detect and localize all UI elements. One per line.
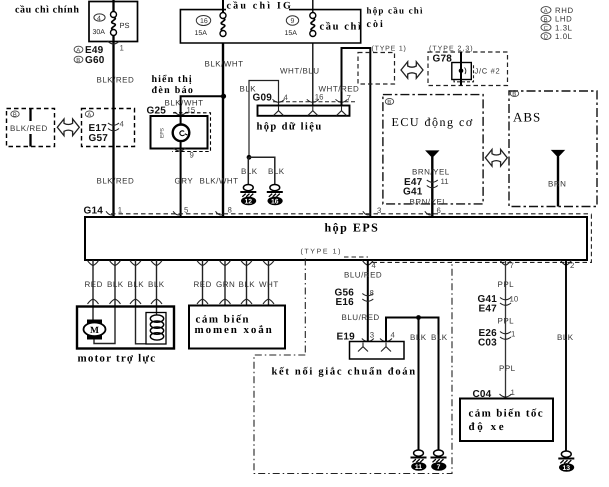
svg-text:cảm biến tốc: cảm biến tốc xyxy=(469,408,544,420)
junction connector J/C #2 xyxy=(454,65,474,82)
svg-text:BLK/RED: BLK/RED xyxy=(10,124,48,133)
yfork pin7 xyxy=(337,107,347,116)
connector variant box BLK/RED (circled B) xyxy=(7,109,55,147)
svg-text:G57: G57 xyxy=(89,133,109,144)
yfork E19 pin4 xyxy=(381,343,391,352)
svg-text:16: 16 xyxy=(315,93,324,102)
wire to ground 16 xyxy=(249,157,275,184)
EPS lamp box xyxy=(151,116,208,149)
svg-text:RED: RED xyxy=(194,280,212,289)
TYPE 1 dashed outline around EPS xyxy=(344,214,591,263)
svg-text:B: B xyxy=(13,112,17,119)
svg-text:BLK: BLK xyxy=(239,280,256,289)
motor wire BLK xyxy=(94,260,115,344)
wire BLK EPS pin2 to ground 13 xyxy=(565,260,567,451)
double arrow (variant swap) xyxy=(57,119,79,136)
pin 16 G09 xyxy=(307,99,319,102)
coil windings xyxy=(150,315,163,322)
wire WHT/RED riser G09 pin7 to EPS pin3 xyxy=(342,48,371,217)
svg-text:G25: G25 xyxy=(147,106,167,117)
main fuse box xyxy=(89,2,138,42)
wire BLU/RED EPS pin4 to E19 pin 3 xyxy=(367,260,369,342)
ground 16 xyxy=(267,185,283,206)
svg-text:2: 2 xyxy=(570,261,574,270)
ABS box xyxy=(509,91,597,207)
svg-text:4: 4 xyxy=(97,15,101,22)
svg-text:A: A xyxy=(544,8,548,15)
ECU box (ECU dong co) xyxy=(383,95,483,204)
junction dot BLK xyxy=(247,155,252,160)
ground 7 xyxy=(431,450,447,471)
svg-text:C03: C03 xyxy=(478,338,497,349)
svg-text:độ xe: độ xe xyxy=(469,421,507,433)
svg-text:B: B xyxy=(76,57,80,64)
svg-text:BLK: BLK xyxy=(128,280,145,289)
svg-text:cầu chì IG: cầu chì IG xyxy=(227,1,293,12)
legend circled B LHD xyxy=(541,15,551,22)
wire stub in variant box xyxy=(29,109,31,122)
svg-text:15A: 15A xyxy=(285,30,298,37)
svg-text:hiển thị: hiển thị xyxy=(152,74,193,85)
connector squiggle E17/G57 xyxy=(108,123,119,131)
svg-text:15A: 15A xyxy=(195,30,208,37)
svg-text:BRN/YEL: BRN/YEL xyxy=(412,168,450,177)
svg-text:BLK/RED: BLK/RED xyxy=(97,177,135,186)
yfork E19 pin3 xyxy=(358,343,368,352)
TYPE 1 variant dashed box xyxy=(358,53,395,85)
svg-text:BLU/RED: BLU/RED xyxy=(344,271,382,280)
ground 13 xyxy=(558,451,574,472)
svg-text:hộp EPS: hộp EPS xyxy=(325,220,380,234)
double arrow type1-type23 xyxy=(401,62,423,79)
svg-text:GRY: GRY xyxy=(175,177,194,186)
svg-text:kết nối giắc chuẩn đoán: kết nối giắc chuẩn đoán xyxy=(272,366,417,377)
svg-text:BLK: BLK xyxy=(557,333,574,342)
svg-text:G78: G78 xyxy=(433,54,453,65)
torque sensor box (cam bien momen xoan) xyxy=(189,306,285,349)
svg-text:8: 8 xyxy=(370,289,374,298)
svg-text:PPL: PPL xyxy=(499,364,516,373)
svg-text:LHD: LHD xyxy=(555,15,572,24)
svg-text:9: 9 xyxy=(291,18,295,25)
svg-text:WHT/RED: WHT/RED xyxy=(319,85,360,94)
EPS pin 7 xyxy=(500,260,511,265)
fork into cluster xyxy=(175,112,187,115)
junction dot gnd11 xyxy=(416,315,421,320)
pin 1 C04 xyxy=(500,394,512,397)
svg-text:1.0L: 1.0L xyxy=(555,32,573,41)
svg-text:cầu chì: cầu chì xyxy=(320,22,363,33)
svg-text:B: B xyxy=(544,16,548,23)
svg-text:5: 5 xyxy=(184,206,189,215)
svg-text:4: 4 xyxy=(372,261,377,270)
svg-text:EPS: EPS xyxy=(160,127,166,138)
svg-text:BRN/YEL: BRN/YEL xyxy=(410,198,448,207)
legend circled A RHD xyxy=(541,7,551,14)
svg-text:12: 12 xyxy=(245,199,253,206)
svg-text:7: 7 xyxy=(510,261,514,270)
svg-text:4: 4 xyxy=(391,331,396,340)
wire BRN xyxy=(557,157,559,207)
EPS box (hop EPS) xyxy=(85,217,587,260)
legend circled D 1.0L xyxy=(541,33,551,40)
svg-text:WHT/BLU: WHT/BLU xyxy=(280,67,320,76)
wire to ground 11 xyxy=(418,318,420,451)
svg-text:13: 13 xyxy=(563,465,571,472)
svg-text:RED: RED xyxy=(85,280,103,289)
coil box xyxy=(146,313,166,345)
TYPE1 diag region chain line left xyxy=(304,259,306,356)
svg-text:C: C xyxy=(544,25,549,32)
svg-text:BLK: BLK xyxy=(268,167,285,176)
pin 3 E19 xyxy=(362,339,374,342)
svg-text:PPL: PPL xyxy=(498,280,515,289)
connector E17 G57 box (circled A) xyxy=(82,109,135,147)
wire branch to indicator xyxy=(181,96,224,216)
squiggle E47/G41 xyxy=(427,180,438,188)
svg-text:1: 1 xyxy=(511,388,515,397)
pin 1 G14 xyxy=(106,211,114,215)
svg-text:3: 3 xyxy=(377,206,381,215)
wire BLK/RED above fuse xyxy=(112,0,114,12)
torque sensor wire GRN xyxy=(224,260,226,306)
pin 5 G14 xyxy=(173,211,181,215)
svg-text:A: A xyxy=(87,112,91,119)
EPS pin 2 xyxy=(561,260,572,265)
speed sensor box (cam bien toc do xe) xyxy=(460,399,553,442)
wire through J/C xyxy=(460,52,462,86)
ground 12 xyxy=(240,185,256,206)
svg-text:G41: G41 xyxy=(403,187,423,198)
svg-text:11: 11 xyxy=(415,464,422,471)
wire above fuse 9 xyxy=(312,0,314,13)
svg-text:M: M xyxy=(90,326,99,336)
svg-text:BLK/WHT: BLK/WHT xyxy=(200,177,239,186)
svg-text:BLK: BLK xyxy=(107,280,124,289)
svg-text:1: 1 xyxy=(118,206,122,215)
fuse PS 30A xyxy=(111,12,117,36)
G14 dashed connector line xyxy=(111,213,591,215)
squiggle G41/E47 xyxy=(500,298,511,306)
circled 4 xyxy=(94,14,105,21)
wire BLK from G09 pin 4 to grounds xyxy=(249,81,279,158)
svg-text:B: B xyxy=(512,91,516,98)
svg-text:16: 16 xyxy=(271,199,279,206)
connector E49 (circled A) xyxy=(74,46,83,53)
svg-text:hộp cầu chì: hộp cầu chì xyxy=(367,6,424,16)
pin 7 G09 xyxy=(336,99,348,102)
svg-text:(TYPE 2,3): (TYPE 2,3) xyxy=(429,45,474,53)
svg-text:7: 7 xyxy=(347,94,351,103)
motor box xyxy=(77,307,174,349)
svg-text:(TYPE 1): (TYPE 1) xyxy=(372,45,407,53)
svg-text:D: D xyxy=(544,34,549,41)
G09 dashed connector line xyxy=(273,101,356,103)
pin 4 G09 xyxy=(273,99,285,102)
pin 6 G14 xyxy=(425,211,433,215)
svg-text:PS: PS xyxy=(120,21,130,30)
instrument cluster dashed outline xyxy=(172,113,211,152)
torque sensor wire BLK xyxy=(246,260,248,306)
svg-text:BRN: BRN xyxy=(548,180,566,189)
wire BLK/WHT fuse16 to G14 pin 8 xyxy=(222,43,224,217)
motor wire BLK 2 xyxy=(136,260,147,344)
svg-text:đèn báo: đèn báo xyxy=(152,85,195,96)
fuse 9 15A xyxy=(310,13,316,37)
junction dot on BLK/WHT xyxy=(221,94,226,99)
motor wire RED xyxy=(92,260,94,320)
svg-text:RHD: RHD xyxy=(555,6,574,15)
svg-text:GRN: GRN xyxy=(216,280,235,289)
svg-text:30A: 30A xyxy=(93,29,106,36)
EPS pin 4 xyxy=(362,260,373,265)
svg-text:motor trợ lực: motor trợ lực xyxy=(78,353,157,365)
wire E19 pin4 to grounds 11/7 xyxy=(386,318,439,451)
svg-text:BLU/RED: BLU/RED xyxy=(342,313,380,322)
svg-text:BLK/WHT: BLK/WHT xyxy=(205,60,244,69)
wire BRN/YEL ECU to EPS pin 6 xyxy=(431,157,433,217)
svg-text:momen xoắn: momen xoắn xyxy=(195,324,274,336)
svg-text:ECU động cơ: ECU động cơ xyxy=(392,115,474,129)
svg-text:B: B xyxy=(387,99,391,106)
svg-text:ABS: ABS xyxy=(513,110,541,125)
ABS feed triangle xyxy=(551,150,565,158)
wire PPL EPS pin7 to speed sensor xyxy=(505,260,507,399)
svg-text:E47: E47 xyxy=(479,304,498,315)
svg-text:4: 4 xyxy=(120,120,125,129)
svg-text:4: 4 xyxy=(284,93,289,102)
svg-text:BLK: BLK xyxy=(410,333,427,342)
svg-text:BLK: BLK xyxy=(148,280,165,289)
svg-text:6: 6 xyxy=(437,206,441,215)
svg-text:16: 16 xyxy=(200,18,208,25)
wire to ground 12 xyxy=(247,157,249,184)
fuse box (hop cau chi) xyxy=(180,10,360,43)
yfork pin16 xyxy=(308,107,318,116)
svg-text:hộp dữ liệu: hộp dữ liệu xyxy=(257,122,323,133)
ECU feed triangle xyxy=(425,150,439,158)
motor wire BLK 3 xyxy=(156,260,158,315)
svg-text:7: 7 xyxy=(437,464,441,471)
svg-text:còi: còi xyxy=(367,19,385,30)
double arrow ECU-ABS xyxy=(485,150,507,167)
svg-text:BLK/RED: BLK/RED xyxy=(97,76,135,85)
svg-text:PPL: PPL xyxy=(498,317,515,326)
indicator lamp xyxy=(173,125,190,142)
svg-text:(TYPE 1): (TYPE 1) xyxy=(301,247,343,255)
wire BLK/RED from fuse to G14 pin 1 xyxy=(112,36,114,217)
svg-text:11: 11 xyxy=(441,177,449,186)
svg-text:G14: G14 xyxy=(84,206,104,217)
connector fork below main fuse box xyxy=(108,41,120,44)
svg-text:E16: E16 xyxy=(336,297,355,308)
motor symbol M xyxy=(87,320,102,326)
svg-text:cầu chì chính: cầu chì chính xyxy=(15,5,79,16)
E19 connector box xyxy=(350,342,405,360)
torque sensor wire RED xyxy=(202,260,204,306)
svg-text:10: 10 xyxy=(510,295,519,304)
TYPE 2,3 variant dashed box xyxy=(428,52,508,86)
svg-text:3: 3 xyxy=(370,331,374,340)
fuse 16 15A xyxy=(220,13,226,37)
svg-text:G60: G60 xyxy=(85,55,105,66)
svg-text:1.3L: 1.3L xyxy=(555,23,573,32)
pin 3 G14 xyxy=(363,211,371,215)
squiggle E26/C03 xyxy=(500,332,511,340)
svg-text:1: 1 xyxy=(511,330,515,339)
wire above fuse 16 xyxy=(222,0,224,13)
squiggle G56/E16 xyxy=(362,294,373,302)
ground 11 xyxy=(411,450,427,471)
diagnostic connector dashed box xyxy=(254,261,452,474)
svg-text:1: 1 xyxy=(120,44,124,53)
svg-text:G09: G09 xyxy=(253,93,273,104)
svg-text:BLK: BLK xyxy=(431,333,448,342)
data link box (hop du lieu) xyxy=(258,106,350,116)
svg-text:BLK/WHT: BLK/WHT xyxy=(165,99,204,108)
svg-text:WHT: WHT xyxy=(259,280,279,289)
svg-text:9: 9 xyxy=(190,151,194,160)
svg-text:J/C #2: J/C #2 xyxy=(475,67,501,76)
fork out of cluster xyxy=(174,148,186,151)
svg-text:A: A xyxy=(76,47,80,54)
pin 4 E19 xyxy=(380,339,392,342)
legend circled C 1.3L xyxy=(541,24,551,31)
connector G60 (circled B) xyxy=(74,56,83,63)
yfork pin4 xyxy=(274,107,284,116)
svg-text:BLK: BLK xyxy=(241,167,258,176)
wire WHT/BLU fuse9 to G09 pin 16 xyxy=(312,43,314,106)
svg-text:8: 8 xyxy=(228,206,232,215)
pin 8 G14 xyxy=(216,211,224,215)
torque sensor wire WHT xyxy=(268,260,270,306)
